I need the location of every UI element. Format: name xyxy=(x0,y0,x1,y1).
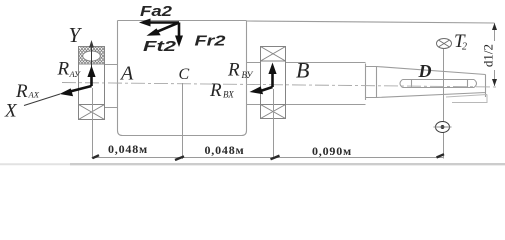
svg-text:ВХ: ВХ xyxy=(223,90,234,100)
svg-text:АУ: АУ xyxy=(69,69,82,79)
svg-text:0,048м: 0,048м xyxy=(108,142,148,156)
svg-text:0,048м: 0,048м xyxy=(205,143,245,157)
svg-text:AX: AX xyxy=(28,90,40,100)
svg-text:ВУ: ВУ xyxy=(242,70,254,80)
svg-text:B: B xyxy=(296,58,309,83)
svg-text:C: C xyxy=(179,66,190,83)
svg-text:R: R xyxy=(227,60,240,81)
svg-text:D: D xyxy=(418,61,432,81)
svg-text:d1/2: d1/2 xyxy=(481,44,496,67)
svg-text:A: A xyxy=(119,63,134,85)
svg-text:2: 2 xyxy=(462,42,467,53)
svg-text:Fr2: Fr2 xyxy=(195,33,227,50)
svg-text:R: R xyxy=(15,81,28,102)
svg-text:Ft2: Ft2 xyxy=(143,38,177,55)
svg-text:X: X xyxy=(4,101,18,122)
svg-text:R: R xyxy=(209,80,222,101)
svg-text:Fa2: Fa2 xyxy=(140,3,173,20)
svg-text:0,090м: 0,090м xyxy=(312,144,352,158)
svg-text:R: R xyxy=(57,59,70,80)
